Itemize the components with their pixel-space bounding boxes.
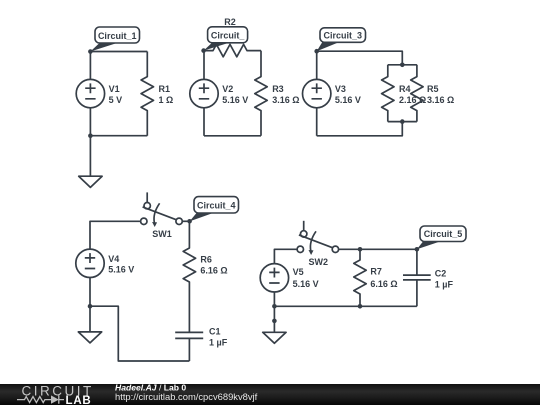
wire bottom rail c2 xyxy=(204,135,261,137)
svg-text:R2: R2 xyxy=(224,17,236,27)
node switch-R6 junction xyxy=(187,219,192,224)
switch SW1 xyxy=(141,192,183,227)
resistor R5 xyxy=(411,65,423,122)
node switch-R7 junction xyxy=(358,247,363,252)
svg-text:R1: R1 xyxy=(159,84,171,94)
voltage source V4 xyxy=(76,249,104,277)
node parallel top xyxy=(400,63,405,68)
svg-text:3.16 Ω: 3.16 Ω xyxy=(272,95,299,105)
node V4 bottom junction xyxy=(88,304,93,309)
svg-text:SW2: SW2 xyxy=(309,257,329,267)
resistor R7 xyxy=(354,249,366,306)
ground c4 xyxy=(78,306,101,343)
svg-text:V3: V3 xyxy=(335,84,346,94)
capacitor C2 xyxy=(403,249,431,306)
svg-text:R3: R3 xyxy=(272,84,284,94)
wire V5 bottom xyxy=(273,292,275,306)
svg-text:5.16 V: 5.16 V xyxy=(293,279,319,289)
svg-text:SW1: SW1 xyxy=(152,229,172,239)
wire V4 bottom xyxy=(89,278,91,307)
node ground stub c5 xyxy=(272,319,277,324)
resistor R2 xyxy=(204,44,261,56)
switch SW2 xyxy=(297,221,339,255)
svg-text:http://circuitlab.com/cpcv689k: http://circuitlab.com/cpcv689kv8vjf xyxy=(115,391,258,402)
voltage source V5 xyxy=(260,264,288,292)
svg-text:2.16 Ω: 2.16 Ω xyxy=(399,95,426,105)
svg-text:5.16 V: 5.16 V xyxy=(108,265,134,275)
svg-text:5 V: 5 V xyxy=(109,95,123,105)
svg-text:Circuit_3: Circuit_3 xyxy=(324,30,363,40)
wire left rail c2 upper xyxy=(203,51,205,80)
svg-text:Circuit_1: Circuit_1 xyxy=(98,31,137,41)
node C2 top junction xyxy=(415,247,420,252)
svg-text:1 µF: 1 µF xyxy=(435,280,454,290)
svg-text:1 Ω: 1 Ω xyxy=(159,95,174,105)
node top-left c2 xyxy=(201,48,206,53)
svg-text:V1: V1 xyxy=(109,84,120,94)
voltage source V2 xyxy=(190,79,218,107)
wire bottom rail c1 xyxy=(90,135,147,137)
svg-text:5.16 V: 5.16 V xyxy=(335,95,361,105)
node parallel bottom xyxy=(400,119,405,124)
svg-text:R4: R4 xyxy=(399,84,411,94)
wire left rail c1 upper xyxy=(89,52,91,80)
node bottom-left c1 xyxy=(88,133,93,138)
voltage source V3 xyxy=(303,79,331,107)
node top-left c3 xyxy=(314,49,319,54)
svg-text:V5: V5 xyxy=(293,267,304,277)
wire left rail c3 lower xyxy=(316,108,318,136)
resistor R4 xyxy=(382,65,394,122)
svg-text:1 µF: 1 µF xyxy=(209,337,228,347)
voltage source V1 xyxy=(76,79,104,107)
node top-left c1 xyxy=(88,49,93,54)
wire bottom rail c3 xyxy=(317,122,403,136)
svg-text:R5: R5 xyxy=(427,84,439,94)
svg-text:LAB: LAB xyxy=(66,395,92,405)
svg-text:6.16 Ω: 6.16 Ω xyxy=(370,279,397,289)
svg-text:C1: C1 xyxy=(209,326,221,336)
svg-text:R7: R7 xyxy=(370,267,382,277)
node label Circuit_4 xyxy=(190,197,239,222)
node V5 bottom junction xyxy=(272,304,277,309)
ground c1 xyxy=(79,136,102,188)
svg-text:R6: R6 xyxy=(200,254,212,264)
wire parallel bottom connector xyxy=(388,121,417,123)
logo circuit glyph xyxy=(17,395,64,403)
node label Circuit_2 xyxy=(204,27,248,51)
svg-text:6.16 Ω: 6.16 Ω xyxy=(200,266,227,276)
wire left rail c2 lower xyxy=(203,108,205,136)
wire switch pole to node xyxy=(182,220,189,222)
wire bottom rail c5 xyxy=(274,305,417,307)
resistor R6 xyxy=(183,221,195,332)
node label Circuit_5 xyxy=(417,226,466,249)
svg-text:3.16 Ω: 3.16 Ω xyxy=(427,95,454,105)
node label Circuit_1 xyxy=(90,27,139,52)
svg-text:5.16 V: 5.16 V xyxy=(222,95,248,105)
svg-text:V2: V2 xyxy=(222,84,233,94)
svg-text:V4: V4 xyxy=(108,254,119,264)
wire switch pole to C2 node xyxy=(339,248,417,250)
svg-text:Circuit_4: Circuit_4 xyxy=(197,201,236,211)
svg-text:C2: C2 xyxy=(435,269,447,279)
wire left rail c1 lower xyxy=(89,108,91,136)
wire left rail c3 upper xyxy=(316,51,318,79)
resistor R3 xyxy=(255,51,267,136)
ground c5 xyxy=(263,306,286,343)
svg-text:Circuit_5: Circuit_5 xyxy=(424,229,463,239)
wire top rail c1 xyxy=(90,51,147,53)
footer bar xyxy=(0,384,540,405)
wire V5 top to switch xyxy=(274,249,297,263)
wire top rail c3 xyxy=(317,51,403,65)
node label Circuit_3 xyxy=(317,28,366,51)
wire bottom path c4 xyxy=(90,306,189,361)
wire V4 top to switch xyxy=(90,221,141,249)
wire parallel top connector xyxy=(388,64,417,66)
resistor R1 xyxy=(141,52,153,136)
svg-text:Circuit_: Circuit_ xyxy=(211,31,246,41)
capacitor C1 xyxy=(175,332,203,361)
node R7 bottom junction xyxy=(358,304,363,309)
